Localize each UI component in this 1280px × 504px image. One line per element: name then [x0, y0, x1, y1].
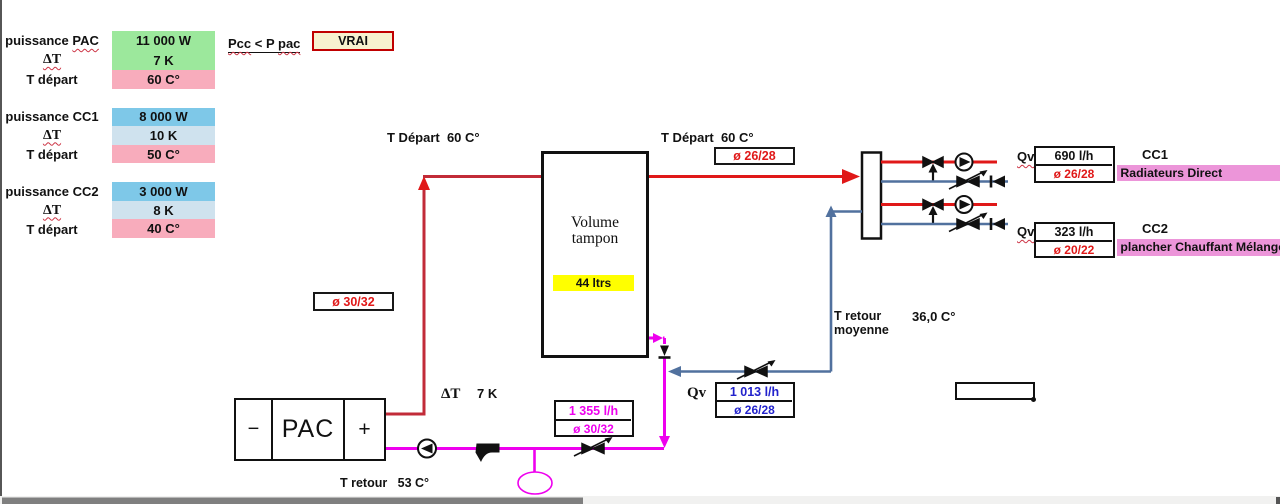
label puissance CC1: [2, 107, 102, 126]
flow table 690 l/h CC1: [1034, 146, 1115, 183]
table puissance PAC values: [112, 31, 215, 89]
arrow red up to T depart: [418, 176, 430, 190]
label T Depart 60 C right: [661, 131, 754, 144]
scrollbar track: [0, 496, 1280, 504]
label Qv middle: [687, 386, 706, 401]
pipe size box o26/28 top: [714, 147, 795, 165]
label T depart PAC: [2, 70, 102, 89]
buffer tank volume label: [541, 215, 649, 248]
wire blue return horizontal: [678, 370, 831, 373]
tank 44 ltrs yellow tag: [553, 275, 634, 291]
wire red supply PAC outlet: [386, 186, 424, 414]
wire magenta tank outlet: [649, 337, 656, 340]
PAC unit box: [234, 398, 386, 461]
valve V2 on circuit 2: [923, 200, 943, 224]
pump P1 circuit 1: [956, 154, 973, 171]
flow table 1355 l/h: [554, 400, 634, 437]
balancing valve blue return main: [737, 360, 776, 379]
expansion vessel stub: [533, 448, 536, 472]
pump P2 circuit 2: [956, 196, 973, 213]
pipe size box o30/32 left: [313, 292, 394, 311]
label dT CC1: [2, 126, 102, 145]
label dT CC2: [2, 201, 102, 220]
wire red circuit 2: [881, 203, 997, 206]
label dT PAC: [2, 50, 102, 70]
VRAI indicator box: [312, 31, 394, 51]
check valve blue return 1: [991, 176, 1005, 188]
wire blue return 1: [881, 180, 1008, 183]
label Qv CC1: [1017, 150, 1034, 163]
label Pcc < P pac: [228, 37, 300, 53]
label dT 7K near PAC: [441, 387, 460, 402]
wire blue riser to manifold: [831, 212, 862, 372]
flow table 323 l/h CC2: [1034, 222, 1115, 258]
label T Depart 60 C left: [387, 131, 480, 144]
buffer tank Volume tampon: [543, 153, 648, 357]
arrow magenta right at tank outlet: [653, 333, 663, 343]
scrollbar right edge mark: [1276, 497, 1280, 504]
label T retour moyenne: [834, 309, 889, 338]
balancing valve blue return 1: [949, 170, 988, 189]
manifold collector: [862, 153, 881, 239]
label CC1: [1142, 148, 1168, 161]
check valve blue return 2: [991, 218, 1005, 230]
wire magenta return to PAC: [386, 447, 664, 450]
label puissance PAC: [2, 31, 102, 50]
label T depart CC2: [2, 220, 102, 239]
arrow blue left at mixing point: [668, 366, 681, 377]
wire magenta down from tank: [663, 338, 665, 440]
label 36,0 C: [912, 310, 956, 323]
flow table 1013 l/h: [715, 382, 795, 418]
expansion vessel: [518, 472, 552, 494]
label T depart CC1: [2, 145, 102, 164]
wire red circuit 1: [881, 161, 997, 164]
scrollbar thumb: [2, 498, 583, 504]
table puissance CC2 values: [112, 182, 215, 238]
label CC2: [1142, 222, 1168, 235]
arrow blue up at manifold: [826, 206, 837, 218]
label puissance CC2: [2, 182, 102, 201]
table puissance CC1 values: [112, 108, 215, 164]
balancing valve magenta return: [574, 437, 613, 456]
arrow red into manifold: [842, 169, 860, 184]
banner Radiateurs Direct: [1117, 165, 1280, 181]
wire red tank to manifold: [649, 175, 845, 178]
empty spare box: [955, 382, 1035, 400]
valve V1 on circuit 1: [923, 157, 943, 181]
check valve vertical: [659, 346, 671, 358]
label T retour 53 C: [340, 477, 429, 490]
label Qv CC2: [1017, 225, 1034, 238]
pump PAC return: [418, 440, 436, 458]
wire red supply to tank: [423, 175, 541, 178]
balancing valve blue return 2: [949, 213, 988, 232]
wire blue return 2: [881, 223, 1008, 226]
window left border: [0, 0, 2, 497]
safety valve flag: [476, 444, 500, 463]
banner plancher Chauffant Melange: [1117, 239, 1280, 256]
arrow magenta down at return line: [659, 436, 670, 448]
